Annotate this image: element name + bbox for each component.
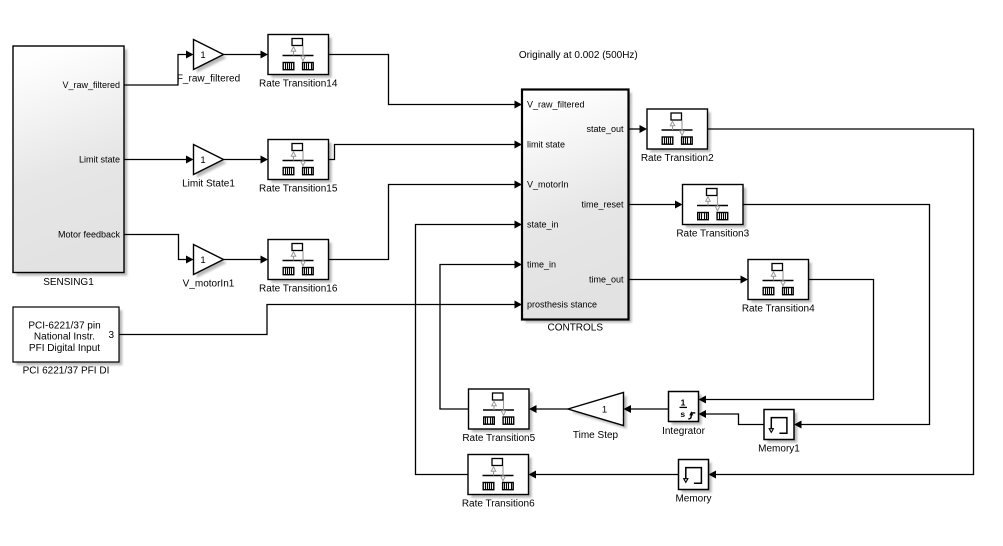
svg-text:Rate Transition2: Rate Transition2	[641, 153, 714, 164]
svg-text:V_motorIn: V_motorIn	[527, 180, 569, 190]
gain V_motorIn1	[183, 245, 235, 290]
svg-text:state_in: state_in	[527, 220, 559, 230]
svg-text:1: 1	[200, 255, 205, 266]
wire PCI to CONTROLS/prosthesis stance	[119, 301, 522, 335]
block PCI 6221/37 PFI DI	[13, 307, 122, 377]
wire Limit State1 gain to Rate Transition15	[224, 156, 269, 164]
svg-text:SENSING1: SENSING1	[43, 277, 94, 288]
svg-text:Integrator: Integrator	[662, 426, 705, 437]
svg-text:CONTROLS: CONTROLS	[547, 323, 603, 334]
svg-text:time_out: time_out	[589, 275, 624, 285]
wire Memory1 to Integrator lower input	[699, 410, 765, 425]
gain Time Step	[568, 393, 627, 442]
gain F_raw_filtered	[177, 40, 240, 85]
block Memory1	[758, 410, 800, 455]
svg-text:Rate Transition14: Rate Transition14	[259, 79, 338, 90]
wire Rate Transition3 to Memory1	[743, 205, 930, 429]
svg-text:s: s	[680, 409, 685, 419]
svg-text:state_out: state_out	[586, 124, 624, 134]
svg-text:Rate Transition4: Rate Transition4	[742, 304, 815, 315]
wire Rate Transition6 to CONTROLS/state_in	[416, 221, 523, 475]
svg-text:V_raw_filtered: V_raw_filtered	[62, 80, 120, 90]
svg-text:Motor feedback: Motor feedback	[58, 230, 121, 240]
block Integrator	[662, 392, 705, 437]
svg-text:Rate Transition5: Rate Transition5	[462, 433, 535, 444]
svg-text:F_raw_filtered: F_raw_filtered	[177, 74, 240, 85]
svg-text:National Instr.: National Instr.	[34, 332, 95, 343]
svg-text:3: 3	[108, 330, 114, 341]
wire Rate Transition4 to Integrator upper input	[699, 280, 874, 404]
svg-text:1: 1	[602, 404, 607, 415]
block Memory	[675, 460, 711, 505]
svg-text:PCI-6221/37 pin: PCI-6221/37 pin	[28, 320, 100, 331]
annotation sample-rate note	[519, 50, 638, 61]
wire Rate Transition2 to Memory	[708, 129, 974, 479]
wire SENSING1/Limit state to Limit State1 gain	[124, 156, 194, 164]
wire Rate Transition15 to CONTROLS/limit state	[329, 141, 523, 160]
svg-text:prosthesis stance: prosthesis stance	[527, 300, 597, 310]
svg-text:1: 1	[200, 50, 205, 61]
wire Rate Transition5 to CONTROLS/time_in	[440, 261, 522, 410]
block Rate Transition2	[641, 109, 714, 164]
svg-text:V_motorIn1: V_motorIn1	[183, 279, 235, 290]
block SENSING1 subsystem	[13, 46, 127, 288]
block Rate Transition6	[462, 455, 535, 510]
svg-text:1: 1	[681, 397, 686, 407]
svg-text:V_raw_filtered: V_raw_filtered	[527, 100, 585, 110]
wire Time Step gain to Rate Transition5	[529, 405, 568, 413]
svg-text:Limit state: Limit state	[79, 155, 120, 165]
svg-text:Originally at 0.002 (500Hz): Originally at 0.002 (500Hz)	[519, 50, 638, 61]
wire Integrator to Time Step gain	[624, 405, 669, 413]
svg-text:Memory1: Memory1	[758, 444, 800, 455]
svg-text:PCI 6221/37 PFI DI: PCI 6221/37 PFI DI	[23, 366, 110, 377]
block Rate Transition3	[676, 185, 749, 240]
svg-text:limit state: limit state	[527, 140, 565, 150]
wire V_motorIn1 gain to Rate Transition16	[224, 256, 269, 264]
gain Limit State1	[182, 145, 235, 190]
wire Memory to Rate Transition6	[529, 471, 679, 479]
wire SENSING1/Motor feedback to V_motorIn1 gain	[124, 235, 194, 264]
svg-text:Limit State1: Limit State1	[182, 179, 235, 190]
wire CONTROLS/state_out to Rate Transition2	[629, 125, 648, 133]
block Rate Transition5	[462, 389, 535, 444]
wire SENSING1/V_raw_filtered to F_raw_filtered gain	[124, 51, 194, 86]
svg-text:Rate Transition6: Rate Transition6	[462, 499, 535, 510]
svg-text:PFI Digital Input: PFI Digital Input	[29, 343, 100, 354]
svg-text:Rate Transition3: Rate Transition3	[676, 229, 749, 240]
block Rate Transition4	[742, 260, 815, 315]
wire F_raw_filtered gain to Rate Transition14	[224, 51, 269, 59]
block Rate Transition15	[259, 140, 338, 195]
svg-text:1: 1	[200, 155, 205, 166]
block CONTROLS subsystem	[522, 90, 632, 334]
svg-text:time_reset: time_reset	[581, 200, 624, 210]
svg-text:time_in: time_in	[527, 260, 556, 270]
wire Rate Transition16 to CONTROLS/V_motorIn	[329, 181, 523, 260]
wire CONTROLS/time_out to Rate Transition4	[629, 276, 749, 284]
wire Rate Transition14 to CONTROLS/V_raw_filtered	[329, 55, 523, 109]
block Rate Transition14	[259, 35, 338, 90]
svg-text:Rate Transition15: Rate Transition15	[259, 184, 338, 195]
block Rate Transition16	[259, 240, 338, 295]
wire CONTROLS/time_reset to Rate Transition3	[629, 201, 683, 209]
svg-text:Rate Transition16: Rate Transition16	[259, 284, 338, 295]
svg-text:Memory: Memory	[675, 494, 711, 505]
svg-text:Time Step: Time Step	[573, 430, 619, 441]
